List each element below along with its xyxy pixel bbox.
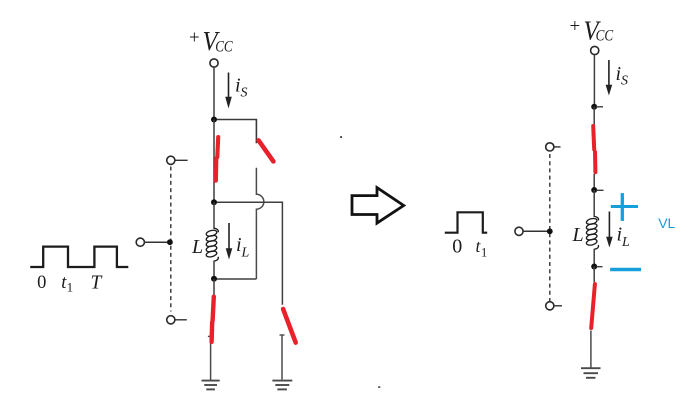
svg-text:VL: VL <box>658 215 675 231</box>
svg-text:1: 1 <box>67 280 74 295</box>
svg-text:L: L <box>241 246 250 261</box>
svg-text:L: L <box>191 236 203 258</box>
svg-text:CC: CC <box>596 28 614 45</box>
svg-text:CC: CC <box>215 39 233 56</box>
svg-text:S: S <box>621 74 628 89</box>
svg-text:T: T <box>90 273 102 294</box>
svg-text:S: S <box>241 86 248 101</box>
svg-text:1: 1 <box>481 246 487 260</box>
svg-text:+: + <box>189 28 200 49</box>
svg-text:0: 0 <box>37 273 46 293</box>
svg-text:L: L <box>572 224 584 246</box>
svg-text:L: L <box>621 235 630 250</box>
svg-text:0: 0 <box>452 236 462 258</box>
svg-text:+: + <box>570 16 581 37</box>
